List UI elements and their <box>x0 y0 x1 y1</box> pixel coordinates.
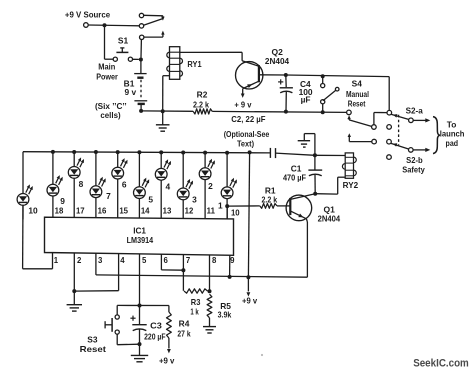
svg-text:3.9k: 3.9k <box>218 310 232 320</box>
svg-text:3: 3 <box>98 256 103 265</box>
svg-text:RY1: RY1 <box>187 59 201 69</box>
svg-text:14: 14 <box>141 207 150 216</box>
svg-text:2.2 k: 2.2 k <box>193 100 209 110</box>
svg-text:(Optional-See: (Optional-See <box>224 130 270 139</box>
svg-text:LM3914: LM3914 <box>127 236 154 245</box>
svg-text:1: 1 <box>218 200 223 210</box>
svg-text:IC1: IC1 <box>133 227 146 236</box>
svg-text:7: 7 <box>186 256 190 265</box>
svg-text:18: 18 <box>55 207 64 216</box>
svg-text:9: 9 <box>60 196 65 206</box>
svg-text:+9 v: +9 v <box>242 296 257 306</box>
svg-text:Safety: Safety <box>402 165 425 175</box>
svg-text:27 k: 27 k <box>177 328 190 338</box>
svg-text:3: 3 <box>192 194 197 204</box>
svg-text:6: 6 <box>122 180 127 190</box>
svg-text:+9 v: +9 v <box>159 356 175 366</box>
svg-text:S2-b: S2-b <box>406 155 423 165</box>
svg-text:11: 11 <box>207 207 216 216</box>
svg-text:5: 5 <box>142 256 147 265</box>
svg-text:15: 15 <box>119 207 128 216</box>
svg-text:10: 10 <box>231 208 240 217</box>
svg-text:8: 8 <box>212 256 217 265</box>
svg-text:4: 4 <box>165 182 170 192</box>
svg-text:+ 9 v: + 9 v <box>234 100 251 110</box>
svg-text:pad: pad <box>446 138 459 148</box>
svg-text:C2, 22 µF: C2, 22 µF <box>231 114 265 124</box>
svg-text:7: 7 <box>106 191 111 201</box>
svg-text:1 k: 1 k <box>190 307 199 317</box>
svg-text:10: 10 <box>28 205 38 215</box>
svg-text:2N404: 2N404 <box>318 214 341 224</box>
svg-text:S1: S1 <box>118 36 129 46</box>
svg-text:Reset: Reset <box>348 99 366 109</box>
svg-text:R3: R3 <box>191 297 201 307</box>
svg-text:Reset: Reset <box>80 344 106 354</box>
svg-text:9 v: 9 v <box>124 87 136 97</box>
svg-text:S2-a: S2-a <box>406 105 424 115</box>
svg-text:8: 8 <box>79 179 84 189</box>
svg-text:S4: S4 <box>352 79 363 89</box>
svg-text:9: 9 <box>230 256 235 265</box>
svg-text:cells): cells) <box>100 110 120 120</box>
svg-text:470 µF: 470 µF <box>283 173 306 183</box>
svg-text:SeekIC.com: SeekIC.com <box>413 358 469 370</box>
svg-text:12: 12 <box>185 207 194 216</box>
svg-text:Power: Power <box>96 71 118 81</box>
svg-text:Manual: Manual <box>346 89 369 99</box>
svg-text:+9 V Source: +9 V Source <box>65 10 111 20</box>
svg-text:5: 5 <box>148 194 153 204</box>
svg-text:RY2: RY2 <box>343 180 359 190</box>
svg-text:17: 17 <box>76 207 85 216</box>
svg-text:4: 4 <box>120 256 125 265</box>
svg-text:Main: Main <box>98 61 115 71</box>
svg-text:2N404: 2N404 <box>265 56 289 66</box>
svg-text:R4: R4 <box>179 319 190 329</box>
svg-text:2: 2 <box>77 256 82 265</box>
svg-text:C3: C3 <box>150 321 162 331</box>
svg-text:2: 2 <box>208 181 213 191</box>
svg-text:6: 6 <box>164 256 169 265</box>
svg-text:1: 1 <box>54 256 59 265</box>
svg-text:13: 13 <box>163 207 172 216</box>
svg-text:µF: µF <box>301 95 311 105</box>
svg-text:Text): Text) <box>237 140 254 149</box>
svg-text:R2: R2 <box>197 90 208 100</box>
svg-text:16: 16 <box>98 207 107 216</box>
svg-text:220 µF: 220 µF <box>144 332 165 342</box>
